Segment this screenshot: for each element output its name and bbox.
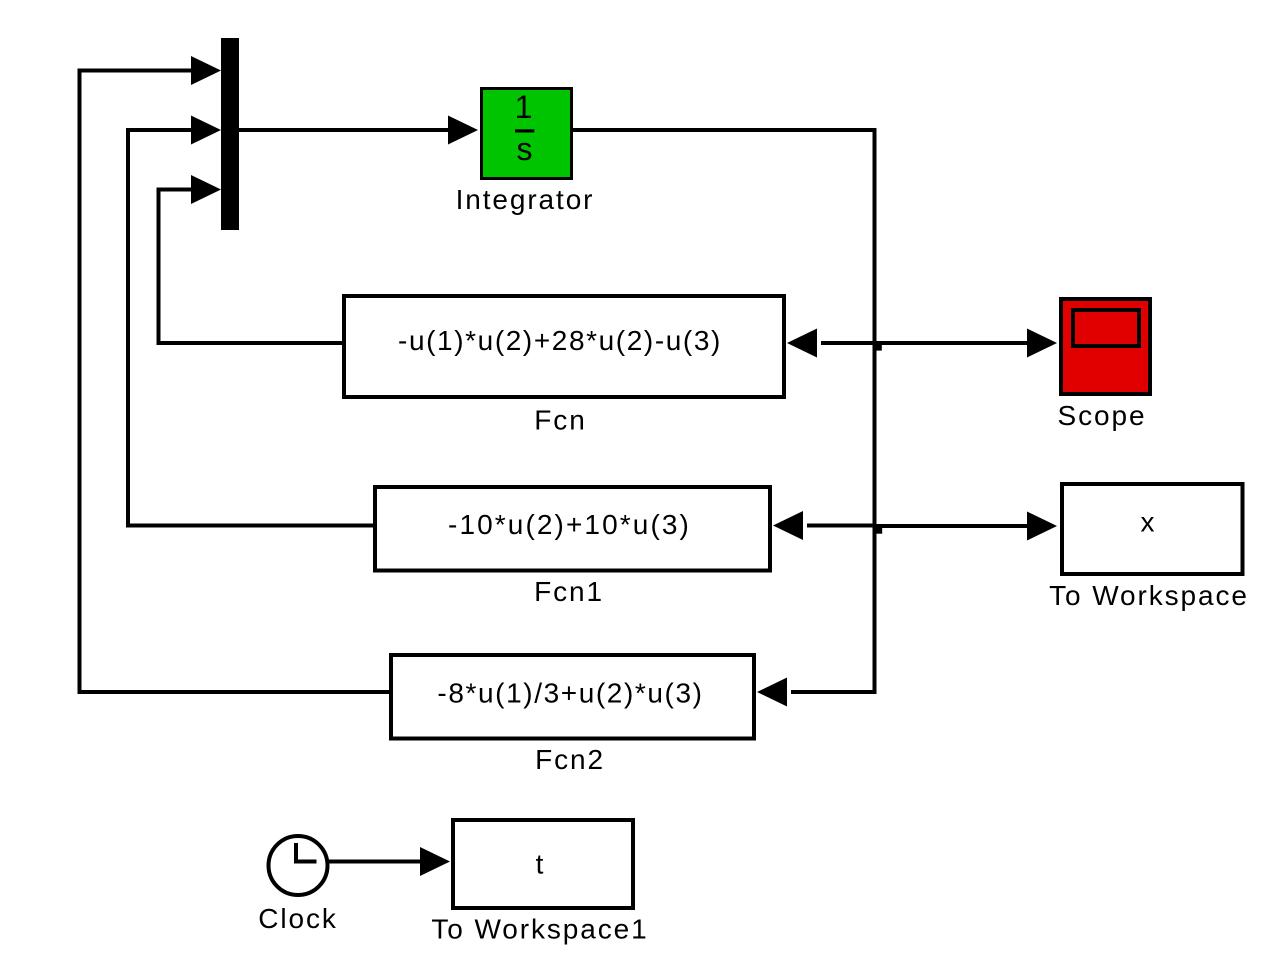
wire: Fcn1 output to Mux input 2: [128, 130, 374, 526]
svg-text:-10*u(2)+10*u(3): -10*u(2)+10*u(3): [448, 509, 691, 540]
arrowhead into Fcn2 input: [757, 678, 787, 707]
To Workspace variable x: [1141, 507, 1157, 538]
wire: branch to Fcn1 input: [807, 524, 875, 528]
svg-text:Integrator: Integrator: [456, 184, 595, 215]
Fcn1 expression: [448, 509, 691, 540]
integrator 1/s denominator: [517, 131, 533, 167]
arrowhead into Integrator: [448, 116, 478, 145]
label Fcn2: [535, 744, 605, 775]
Fcn expression: [398, 325, 722, 356]
label To Workspace: [1049, 580, 1249, 611]
wire: Fcn2 output to Mux input 1: [80, 71, 390, 693]
To Workspace block: [1062, 484, 1243, 574]
integrator block: [482, 89, 572, 179]
svg-text:Fcn: Fcn: [534, 405, 586, 436]
arrowhead into Mux input 1: [191, 56, 221, 85]
label Scope: [1058, 400, 1147, 431]
integrator fraction bar: [515, 129, 534, 132]
svg-text:Fcn2: Fcn2: [535, 744, 605, 775]
svg-text:To Workspace1: To Workspace1: [431, 914, 648, 945]
svg-text:-8*u(1)/3+u(2)*u(3): -8*u(1)/3+u(2)*u(3): [437, 678, 703, 709]
To Workspace1 block: [453, 820, 633, 908]
label Fcn1: [534, 576, 604, 607]
Fcn block: [344, 296, 784, 397]
arrowhead into Fcn input: [787, 329, 817, 358]
svg-text:To Workspace: To Workspace: [1049, 580, 1249, 611]
arrowhead into Mux input 2: [191, 116, 221, 145]
Fcn2 expression: [437, 678, 703, 709]
wire: Fcn output to Mux input 3: [159, 190, 344, 344]
Fcn1 block: [375, 487, 770, 571]
arrowhead into Mux input 3: [191, 175, 221, 204]
arrowhead into Fcn1 input: [773, 511, 803, 540]
wire: Mux output to Integrator input: [239, 128, 452, 132]
junction dot at Fcn/Scope branch: [874, 344, 882, 350]
label Clock: [258, 903, 338, 934]
label To Workspace1: [431, 914, 648, 945]
svg-text:x: x: [1141, 507, 1157, 538]
To Workspace1 variable t: [536, 849, 546, 880]
svg-text:Clock: Clock: [258, 903, 338, 934]
svg-text:1: 1: [515, 89, 533, 125]
label Integrator: [456, 184, 595, 215]
wire: Integrator output trunk (right, down, to Fcn2 input): [573, 130, 875, 692]
integrator 1/s numerator: [515, 89, 533, 125]
wire: branch to To Workspace: [875, 524, 1032, 528]
svg-text:s: s: [517, 131, 533, 167]
svg-text:Fcn1: Fcn1: [534, 576, 604, 607]
arrowhead into To Workspace: [1027, 512, 1057, 541]
wire: branch to Scope: [875, 341, 1032, 345]
Fcn2 block: [391, 655, 754, 739]
Clock block: [269, 836, 328, 895]
svg-text:-u(1)*u(2)+28*u(2)-u(3): -u(1)*u(2)+28*u(2)-u(3): [398, 325, 722, 356]
Scope screen: [1073, 310, 1139, 346]
svg-text:t: t: [536, 849, 546, 880]
label Fcn: [534, 405, 586, 436]
svg-text:Scope: Scope: [1058, 400, 1147, 431]
arrowhead into Scope: [1027, 329, 1057, 358]
Clock hands: [296, 843, 317, 862]
mux block: [221, 38, 239, 230]
arrowhead into To Workspace1: [420, 847, 450, 876]
wire: Clock output to To Workspace1: [329, 860, 423, 864]
junction dot at Fcn1/To Workspace branch: [874, 528, 882, 534]
wire: branch to Fcn input: [821, 341, 875, 345]
Scope block: [1061, 299, 1150, 394]
